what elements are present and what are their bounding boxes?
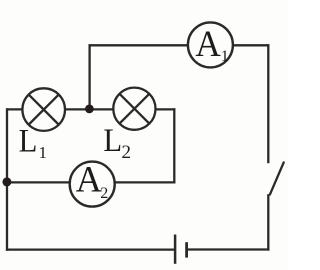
ammeter A2 bbox=[70, 158, 115, 207]
switch S blade bbox=[270, 162, 284, 194]
wire: top horizontal through A1 bbox=[89, 44, 270, 46]
svg-text:2: 2 bbox=[122, 142, 132, 163]
svg-text:1: 1 bbox=[221, 48, 229, 65]
wire: L2 to A2 drop bbox=[173, 108, 175, 183]
node: junction dot between L1 and L2 bbox=[85, 105, 94, 114]
ammeter A1 bbox=[188, 22, 233, 67]
svg-text:2: 2 bbox=[100, 185, 108, 202]
wire: riser from junction to top bbox=[88, 44, 90, 110]
svg-text:L: L bbox=[103, 122, 122, 158]
svg-text:A: A bbox=[195, 23, 220, 64]
wire: right rail lower bbox=[267, 194, 269, 250]
svg-text:L: L bbox=[19, 123, 38, 159]
wire: bottom left to battery bbox=[6, 248, 175, 250]
node: junction dot on left rail bbox=[2, 177, 11, 186]
battery short plate bbox=[185, 242, 188, 257]
svg-text:A: A bbox=[76, 158, 103, 199]
svg-text:1: 1 bbox=[39, 143, 48, 162]
lamp L2 bbox=[113, 88, 155, 130]
label L1 bbox=[19, 123, 47, 162]
wire: bottom right from battery to right corner bbox=[187, 248, 269, 250]
wire: right rail upper bbox=[267, 44, 269, 163]
wire: A2 branch horizontal bbox=[6, 181, 176, 183]
label L2 bbox=[103, 122, 131, 163]
wire: left rail vertical bbox=[6, 108, 8, 250]
battery long plate bbox=[174, 235, 177, 264]
wire: lamp row horizontal bbox=[7, 108, 175, 110]
lamp L1 bbox=[22, 88, 65, 131]
